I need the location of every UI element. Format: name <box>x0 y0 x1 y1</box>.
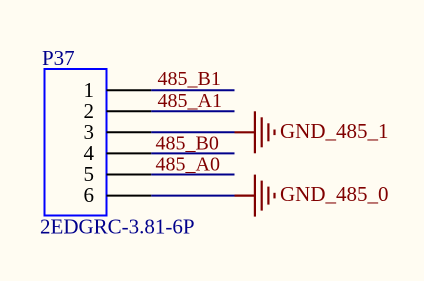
pin 4 <box>84 141 152 165</box>
wire pin1 <box>151 89 234 91</box>
connector P37 body <box>45 69 107 216</box>
pin 2 <box>84 99 152 123</box>
net label 485_A0 <box>156 154 220 176</box>
svg-text:GND_485_1: GND_485_1 <box>280 119 389 143</box>
part number 2EDGRC-3.81-6P <box>40 215 195 239</box>
pin 6 <box>84 183 152 207</box>
wire pin2 <box>151 110 234 112</box>
power port GND_485_0 <box>235 175 389 217</box>
svg-text:485_B1: 485_B1 <box>158 68 221 90</box>
pin 3 <box>84 120 152 144</box>
pin 1 <box>84 78 152 102</box>
svg-text:485_A0: 485_A0 <box>156 154 220 176</box>
svg-text:2EDGRC-3.81-6P: 2EDGRC-3.81-6P <box>40 215 195 239</box>
wire pin5 <box>151 174 234 176</box>
svg-text:485_A1: 485_A1 <box>158 90 222 112</box>
designator P37 <box>42 46 75 70</box>
net label 485_A1 <box>158 90 222 112</box>
wire pin4 <box>151 152 234 154</box>
svg-text:GND_485_0: GND_485_0 <box>280 182 389 206</box>
wire pin6 <box>151 195 234 197</box>
svg-text:485_B0: 485_B0 <box>156 132 219 154</box>
net label 485_B0 <box>156 132 219 154</box>
power port GND_485_1 <box>235 111 389 153</box>
svg-text:P37: P37 <box>42 46 75 70</box>
svg-text:6: 6 <box>84 183 95 207</box>
pin 5 <box>84 162 152 186</box>
net label 485_B1 <box>158 68 221 90</box>
wire pin3 <box>151 131 234 133</box>
